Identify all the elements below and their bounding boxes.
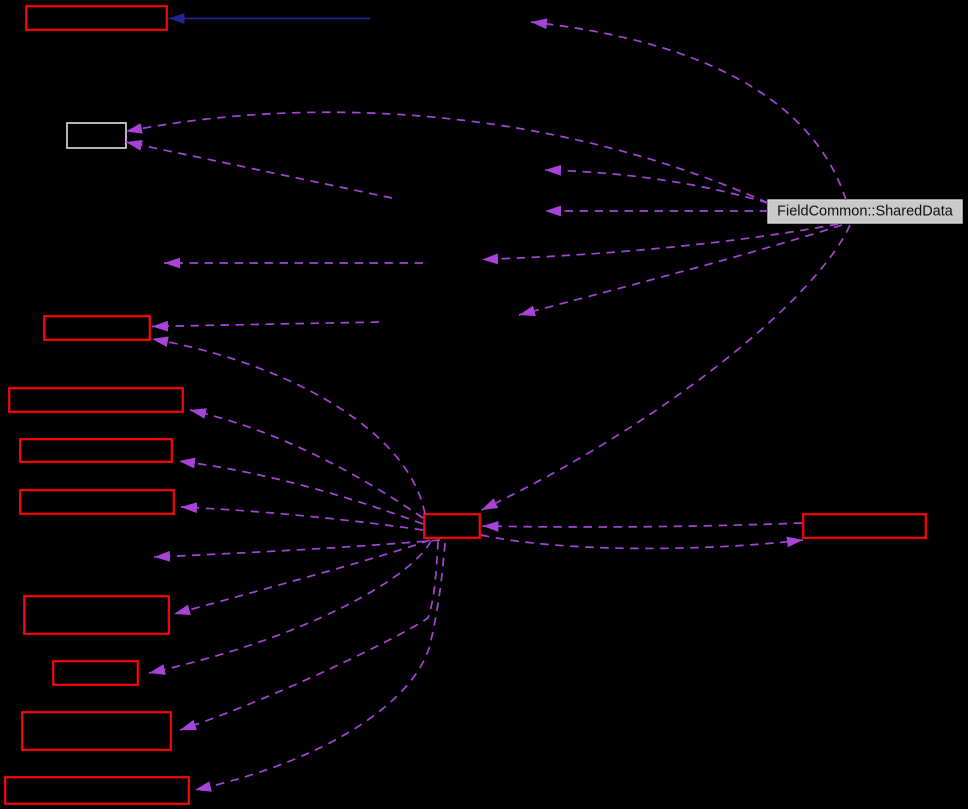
usage edge t: node R to node M [483, 523, 803, 527]
node box D [20, 490, 174, 514]
node box A [44, 316, 150, 340]
usage edge n: node M to hidden node (154,557) [154, 540, 440, 557]
usage edge j: node M to node A bottom [152, 339, 425, 514]
node box B [9, 388, 183, 412]
node box R (right-hand class) [803, 514, 926, 538]
usage edge o: node M to node E [174, 540, 430, 614]
usage edge a: SharedData to hidden node top-center [531, 22, 846, 200]
inheritance arrow (blue) into node R1 [169, 18, 371, 20]
usage edge p: node M to node F [149, 541, 431, 673]
usage edge i: hidden node to node A top [152, 322, 379, 327]
node box H [5, 777, 189, 804]
usage edge g: SharedData to node W [126, 112, 768, 203]
usage edge b: SharedData to hidden node (551,170) [545, 170, 768, 203]
usage edge f: SharedData to node M [482, 225, 851, 510]
node box R1 (top-left class, label hidden) [26, 6, 167, 30]
usage edge c: SharedData to hidden node (551,211) [545, 210, 768, 212]
node box E [24, 596, 169, 634]
usage edge k: node M to node B [190, 410, 423, 518]
node FieldCommon::SharedData (gray filled) [768, 200, 962, 223]
node box F [53, 661, 138, 685]
usage edge d: SharedData to hidden node (485,258) [482, 224, 838, 260]
svg-text:FieldCommon::SharedData: FieldCommon::SharedData [777, 204, 954, 220]
usage edge m: node M to node D [181, 507, 423, 530]
usage edge q: node M to node G [180, 541, 438, 730]
usage edge r: node M to node H [195, 543, 445, 790]
usage edge e: SharedData to hidden node (528,313) [519, 225, 842, 315]
node box M (central hub class) [424, 514, 480, 538]
node box C [20, 439, 172, 462]
usage edge h: hidden node to hidden node (164,263) [164, 262, 423, 264]
node box G [22, 712, 171, 750]
usage edge l: node M to node C [179, 461, 423, 524]
usage edge h2: hidden node to node W [126, 142, 392, 198]
usage edge s: node M to node R [481, 535, 803, 548]
node box W (gray-bordered class) [67, 123, 126, 148]
